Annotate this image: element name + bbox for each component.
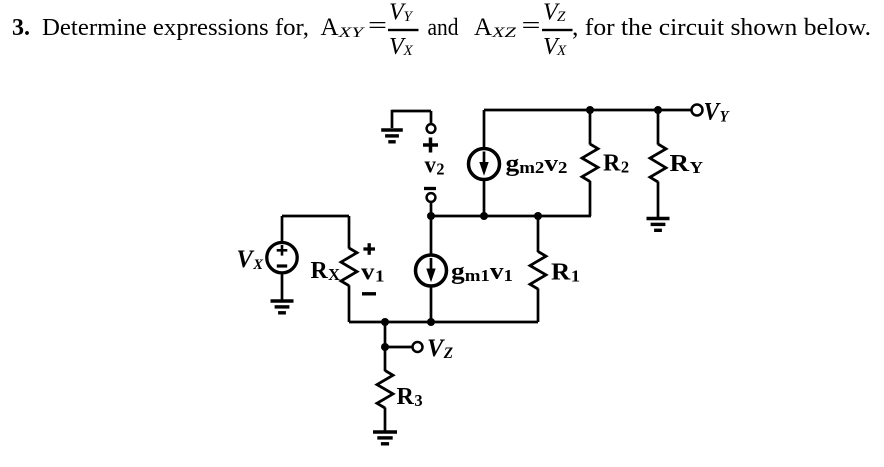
svg-text:=: = bbox=[368, 13, 387, 39]
svg-text:X: X bbox=[403, 43, 414, 59]
svg-text:3.: 3. bbox=[12, 15, 30, 41]
svg-text:XY: XY bbox=[337, 25, 365, 41]
svg-text:Determine expressions for,: Determine expressions for, bbox=[42, 15, 309, 41]
svg-text:A: A bbox=[321, 14, 339, 41]
svg-text:X: X bbox=[556, 43, 567, 59]
svg-text:, for the circuit shown below.: , for the circuit shown below. bbox=[572, 15, 871, 41]
svg-text:=: = bbox=[522, 13, 541, 39]
svg-text:XZ: XZ bbox=[491, 25, 517, 41]
svg-text:A: A bbox=[474, 14, 492, 41]
svg-text:Z: Z bbox=[557, 9, 566, 25]
svg-text:and: and bbox=[428, 15, 459, 41]
